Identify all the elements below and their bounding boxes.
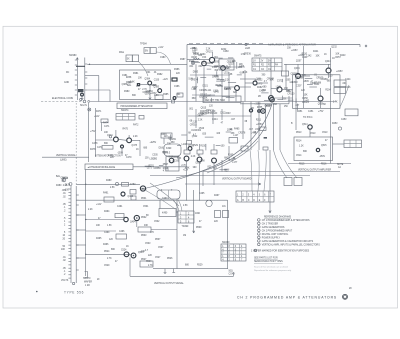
- svg-text:ELECTRICAL CONN: ELECTRICAL CONN: [52, 97, 73, 100]
- svg-text:R357: R357: [335, 57, 341, 59]
- box pair gain: [144, 48, 156, 54]
- svg-text:D597: D597: [163, 164, 169, 166]
- resistor R392: [172, 78, 177, 81]
- wire: [333, 143, 345, 145]
- svg-text:2.2K: 2.2K: [133, 136, 138, 138]
- transistor Q474: [114, 137, 119, 142]
- svg-text:MAG: MAG: [119, 51, 124, 54]
- svg-text:2B: 2B: [258, 96, 261, 98]
- value labels balance: [94, 110, 139, 157]
- transistor Q476: [121, 145, 124, 148]
- svg-text:CH 2 TRIGGER: CH 2 TRIGGER: [262, 223, 279, 225]
- svg-text:C479: C479: [126, 157, 132, 159]
- jack loop J475: [206, 200, 212, 206]
- svg-text:+225V: +225V: [150, 93, 157, 95]
- potentiometer R483: [115, 182, 118, 185]
- switch SW470 volts/div: [61, 186, 88, 285]
- svg-text:C459: C459: [259, 91, 265, 93]
- crossed small b: [258, 110, 261, 113]
- svg-text:GATE GENERATORS: GATE GENERATORS: [262, 226, 285, 229]
- svg-text:C478: C478: [92, 143, 98, 145]
- value labels preamp: [189, 48, 252, 100]
- svg-text:R501: R501: [141, 198, 147, 200]
- reference diagrams block: [251, 215, 320, 271]
- svg-text:1K: 1K: [324, 54, 327, 56]
- resistor squiggle R391: [193, 58, 200, 59]
- svg-text:L121: L121: [206, 90, 212, 92]
- svg-text:R258: R258: [126, 77, 132, 79]
- svg-text:Scans of this schematic are ar: Scans of this schematic are archived: [254, 265, 289, 268]
- svg-text:12K: 12K: [232, 61, 237, 63]
- svg-text:R502: R502: [141, 217, 147, 219]
- value labels input box: [122, 72, 160, 95]
- curve to wafer a: [250, 150, 252, 191]
- svg-text:Q514: Q514: [302, 124, 308, 126]
- svg-text:R503: R503: [141, 235, 147, 237]
- transistor Q394: [202, 61, 207, 66]
- box C492: [263, 147, 268, 150]
- title dash row: [189, 42, 263, 44]
- box mid tap: [116, 234, 127, 239]
- relay K490 labels: [166, 148, 172, 155]
- svg-text:D472: D472: [193, 53, 199, 55]
- svg-text:K490: K490: [162, 213, 168, 215]
- svg-text:C307: C307: [296, 86, 302, 88]
- box pre-bus b: [177, 93, 183, 97]
- svg-text:R516: R516: [321, 164, 327, 166]
- svg-text:R515: R515: [299, 164, 305, 166]
- svg-text:C305: C305: [152, 155, 158, 157]
- arrowhead: [269, 211, 271, 214]
- svg-text:WAFER: WAFER: [84, 281, 92, 284]
- circle pre-bus: [173, 97, 176, 100]
- svg-text:CR559: CR559: [154, 168, 162, 170]
- svg-text:5.6K: 5.6K: [256, 78, 261, 80]
- svg-text:-150V: -150V: [303, 81, 310, 83]
- svg-text:TP384: TP384: [140, 44, 147, 46]
- svg-text:VERTICAL OUTPUT SIGNAL: VERTICAL OUTPUT SIGNAL: [154, 282, 184, 285]
- potentiometer R481: [69, 183, 72, 186]
- wire stubs from switch: [76, 215, 86, 258]
- svg-text:C453: C453: [341, 119, 347, 121]
- pot R524: [131, 253, 136, 258]
- box detail: [122, 183, 129, 187]
- value labels output compartment: [296, 124, 328, 166]
- labels mag: [119, 44, 186, 97]
- connector circle ATT: [270, 97, 275, 102]
- svg-text:+12V: +12V: [158, 47, 164, 49]
- svg-text:2.2K: 2.2K: [191, 156, 196, 158]
- svg-text:SW474: SW474: [121, 110, 129, 112]
- svg-text:R485: R485: [234, 128, 240, 130]
- svg-text:2.7K: 2.7K: [148, 265, 153, 267]
- table input attenuator: [116, 114, 135, 121]
- svg-text:.047: .047: [231, 119, 236, 121]
- svg-text:AMPLIFIER & PERIODIC ATTENUATO: AMPLIFIER & PERIODIC ATTENUATOR: [268, 43, 316, 46]
- curve to connector 1: [273, 150, 287, 178]
- transistor Q514: [308, 125, 312, 129]
- svg-text:D494: D494: [161, 134, 167, 136]
- svg-text:C502: C502: [154, 221, 160, 223]
- svg-text:.001: .001: [189, 66, 194, 68]
- connector box P12: [294, 178, 302, 186]
- svg-text:1M: 1M: [183, 235, 186, 237]
- switch wafer SW490: [236, 191, 274, 202]
- ground stub 2: [172, 269, 175, 273]
- svg-text:CR278: CR278: [238, 132, 246, 134]
- svg-text:22K: 22K: [148, 255, 153, 257]
- curve to connector 2: [280, 150, 297, 178]
- wire: [98, 76, 100, 102]
- labels below switch: [83, 278, 100, 287]
- svg-text:L331: L331: [224, 73, 230, 75]
- label attenuator section: [90, 131, 139, 159]
- svg-text:Q515: Q515: [321, 145, 327, 147]
- svg-text:6.8K: 6.8K: [185, 168, 190, 170]
- svg-text:2.2K: 2.2K: [225, 79, 230, 81]
- svg-text:NOTE: NOTE: [337, 164, 344, 166]
- wire drops preamp: [196, 52, 245, 102]
- dark mark: [264, 137, 267, 139]
- svg-text:R475: R475: [123, 129, 129, 131]
- junction on line: [245, 43, 247, 45]
- svg-text:33K: 33K: [270, 79, 275, 81]
- switch SW380 input coupling: [64, 55, 87, 101]
- svg-text:C372: C372: [277, 80, 283, 82]
- box small left 2: [131, 196, 136, 200]
- curve to relay 2: [145, 190, 175, 209]
- labels pots: [56, 175, 70, 192]
- svg-text:TD490: TD490: [182, 226, 190, 228]
- svg-text:R513: R513: [296, 132, 302, 134]
- svg-text:TO PIN 4: TO PIN 4: [303, 117, 313, 119]
- svg-text:Q207: Q207: [296, 61, 302, 63]
- labels mid: [106, 180, 136, 189]
- svg-text:.001: .001: [189, 108, 194, 110]
- potentiometer R480: [62, 178, 66, 182]
- pot R489: [140, 186, 145, 191]
- svg-text:2.5K: 2.5K: [110, 187, 115, 189]
- svg-text:CH 2 PROGRAMMED INPUT: CH 2 PROGRAMMED INPUT: [262, 229, 293, 232]
- box C444: [334, 80, 346, 86]
- svg-text:C520: C520: [199, 128, 205, 130]
- value labels center: [141, 189, 226, 263]
- svg-text:R494: R494: [104, 211, 110, 213]
- circled diamond: [343, 294, 348, 299]
- svg-text:CR289: CR289: [321, 79, 329, 81]
- svg-text:L470: L470: [257, 84, 263, 86]
- wire stubs preamp: [191, 58, 242, 102]
- tiny note lines: [337, 164, 344, 169]
- svg-text:15K: 15K: [287, 47, 292, 49]
- svg-text:◂ ATTENUATOR BALANCE: ◂ ATTENUATOR BALANCE: [88, 166, 116, 169]
- svg-text:SW470: SW470: [83, 278, 91, 280]
- svg-text:+12V: +12V: [94, 116, 100, 118]
- svg-text:R514: R514: [296, 141, 302, 143]
- svg-text:+12V: +12V: [183, 170, 189, 172]
- svg-text:R386: R386: [174, 69, 180, 71]
- tap wire 184: [76, 183, 140, 185]
- curve relay to table: [178, 200, 182, 212]
- svg-text:1.2K: 1.2K: [299, 146, 304, 148]
- svg-text:1K: 1K: [332, 58, 335, 60]
- svg-text:R478: R478: [90, 149, 96, 151]
- svg-text:VOLTS: VOLTS: [61, 280, 69, 282]
- svg-text:R471: R471: [96, 111, 102, 113]
- svg-text:+75V: +75V: [318, 111, 324, 113]
- svg-text:CR105: CR105: [199, 90, 207, 92]
- wire: [176, 211, 178, 213]
- switch ground circle: [81, 93, 84, 96]
- svg-text:VERTICAL SIGNAL: VERTICAL SIGNAL: [56, 154, 77, 157]
- svg-text:+225V: +225V: [291, 50, 298, 52]
- wires right cluster: [245, 48, 331, 164]
- svg-text:R527: R527: [141, 259, 147, 261]
- svg-text:C483: C483: [223, 51, 229, 53]
- dashed bus segment: [41, 97, 90, 103]
- tap wire 231: [86, 230, 116, 232]
- transistor Q424: [269, 96, 274, 101]
- svg-text:2.2K: 2.2K: [63, 185, 68, 187]
- svg-text:C451: C451: [308, 111, 314, 113]
- ground arrow: [149, 98, 151, 100]
- svg-text:CR120: CR120: [287, 93, 295, 95]
- svg-text:R498: R498: [191, 57, 197, 59]
- svg-text:VERTICAL OUTPUT AMPLIFIER: VERTICAL OUTPUT AMPLIFIER: [298, 168, 331, 171]
- box pre-bus a: [155, 95, 163, 100]
- labels top right band: [287, 47, 342, 63]
- svg-text:R443: R443: [340, 55, 346, 57]
- svg-text:C494: C494: [104, 232, 110, 234]
- svg-text:Q434: Q434: [294, 68, 300, 70]
- svg-text:L127: L127: [233, 135, 239, 137]
- svg-text:R483: R483: [106, 180, 112, 182]
- signal line label: [42, 154, 89, 161]
- resistor box R491: [104, 197, 114, 202]
- svg-text:R441: R441: [313, 51, 319, 53]
- junction: [89, 64, 90, 65]
- box around Q395: [219, 59, 234, 70]
- svg-text:CR374: CR374: [191, 80, 199, 82]
- svg-text:10K: 10K: [138, 78, 143, 80]
- svg-text:2.2K: 2.2K: [88, 209, 93, 211]
- wire riser 177: [176, 199, 178, 269]
- wires preamp horizontals: [187, 59, 256, 95]
- svg-text:GATE GENERATORS & CALIBRATOR C: GATE GENERATORS & CALIBRATOR CIRCUITS: [262, 240, 314, 243]
- sweep curve 3: [207, 141, 258, 173]
- svg-text:-150V: -150V: [225, 113, 232, 115]
- transistor Q503: [169, 158, 174, 163]
- connector circle elec: [88, 108, 91, 111]
- svg-text:5.6K: 5.6K: [169, 157, 174, 159]
- svg-text:VERTICAL OUTPUT BOARD: VERTICAL OUTPUT BOARD: [222, 177, 252, 180]
- svg-text:-150V: -150V: [225, 89, 232, 91]
- labels under bus: [189, 106, 263, 137]
- svg-text:6.8K: 6.8K: [240, 73, 245, 75]
- node dot: [365, 45, 367, 47]
- svg-text:C491: C491: [117, 206, 123, 208]
- svg-text:DIGITAL UNIT CONTROL: DIGITAL UNIT CONTROL: [262, 233, 289, 236]
- svg-text:C503: C503: [145, 243, 151, 245]
- svg-text:2.2K: 2.2K: [206, 49, 211, 51]
- svg-text:+225V: +225V: [150, 142, 157, 144]
- switch wafer SW475: [252, 56, 282, 72]
- wire riser 193: [193, 190, 195, 233]
- curve to relay: [150, 183, 179, 206]
- svg-text:R282: R282: [257, 87, 263, 89]
- arrow output bus: [185, 183, 261, 185]
- svg-text:2.2K: 2.2K: [193, 121, 198, 123]
- svg-text:Q493: Q493: [128, 196, 134, 198]
- svg-text:DC: DC: [66, 72, 70, 74]
- transistor Q502: [188, 147, 192, 151]
- svg-text:R491: R491: [103, 193, 109, 195]
- svg-text:2.7K: 2.7K: [107, 258, 112, 260]
- svg-text:Q115: Q115: [228, 63, 234, 65]
- svg-text:C496: C496: [119, 231, 125, 233]
- svg-text:Q475: Q475: [132, 145, 138, 147]
- box +12V: [101, 119, 108, 123]
- svg-text:+225V: +225V: [336, 71, 343, 73]
- svg-text:R496: R496: [103, 244, 109, 246]
- svg-text:L246: L246: [276, 87, 282, 89]
- svg-text:2V: 2V: [261, 60, 264, 62]
- svg-text:R480: R480: [56, 185, 62, 187]
- svg-text:CR302: CR302: [194, 130, 202, 132]
- svg-text:R529: R529: [197, 265, 203, 267]
- svg-text:C312: C312: [220, 112, 226, 114]
- svg-text:R453: R453: [332, 123, 338, 125]
- svg-text:D295: D295: [214, 61, 220, 63]
- svg-text:Q524: Q524: [138, 252, 144, 254]
- svg-text:+12V: +12V: [163, 79, 169, 81]
- svg-text:C471: C471: [104, 126, 110, 128]
- svg-text:CR562: CR562: [291, 73, 299, 75]
- crossed small a: [249, 109, 252, 112]
- wires balance cluster: [96, 123, 141, 156]
- svg-text:Q232: Q232: [331, 47, 337, 49]
- svg-text:Q494: Q494: [130, 222, 136, 224]
- svg-text:J490: J490: [195, 213, 201, 215]
- grid table relay contacts: [178, 211, 194, 223]
- diode D384: [137, 84, 139, 86]
- svg-text:C527: C527: [155, 257, 161, 259]
- table switch positions: [221, 242, 246, 262]
- svg-text:C383: C383: [160, 57, 166, 59]
- transistor Q414: [277, 87, 282, 92]
- svg-text:C524: C524: [121, 250, 127, 252]
- ground stub: [164, 269, 167, 274]
- +300V line: [188, 113, 251, 116]
- wire coax drop: [227, 200, 229, 269]
- transistor Q384: [148, 81, 152, 85]
- value labels driver: [254, 73, 338, 108]
- signal bus: [90, 101, 336, 103]
- crossed circle input: [191, 61, 194, 64]
- svg-text:D160: D160: [159, 148, 165, 150]
- wire riser left: [85, 170, 87, 277]
- table output connector: [344, 140, 362, 148]
- bus second line: [240, 96, 289, 104]
- svg-text:15K: 15K: [202, 57, 207, 59]
- box above relay: [161, 133, 172, 138]
- svg-text:R507: R507: [155, 239, 161, 241]
- svg-text:1.5K: 1.5K: [107, 225, 112, 227]
- svg-text:-150V: -150V: [117, 153, 124, 155]
- labels connectors: [251, 96, 271, 110]
- svg-text:15K: 15K: [304, 95, 309, 97]
- value labels mid band: [143, 130, 238, 173]
- box output compartment: [294, 137, 333, 161]
- connector circle CRT: [261, 109, 266, 114]
- svg-text:C495: C495: [199, 193, 205, 195]
- svg-text:SW475: SW475: [254, 56, 262, 58]
- box Q503 stage: [166, 157, 179, 172]
- svg-text:R385: R385: [163, 94, 169, 96]
- svg-text:PROGRAMMED ATTENUATOR: PROGRAMMED ATTENUATOR: [121, 105, 153, 108]
- box small driver: [282, 71, 289, 76]
- resistor boxes output row: [184, 150, 217, 154]
- wire: [140, 84, 148, 86]
- wire: [136, 221, 138, 227]
- section border amplifier: [187, 45, 360, 141]
- svg-text:1V: 1V: [253, 60, 256, 62]
- svg-text:SEE PARTS LIST FOR: SEE PARTS LIST FOR: [254, 257, 278, 260]
- wires output row: [164, 138, 229, 201]
- svg-text:C501: C501: [143, 206, 149, 208]
- svg-text:C513: C513: [310, 133, 316, 135]
- svg-text:CR536: CR536: [244, 54, 252, 56]
- vertical output signal line: [130, 275, 234, 277]
- svg-text:R381: R381: [133, 73, 139, 75]
- labels left margin ticks: [61, 178, 71, 187]
- transistor Q506: [212, 158, 217, 163]
- svg-text:Q474: Q474: [107, 135, 113, 137]
- transistor Q524: [124, 252, 129, 257]
- sweep curve 1: [147, 104, 273, 188]
- svg-text:L428: L428: [245, 48, 251, 50]
- svg-text:C507: C507: [158, 247, 164, 249]
- transistor Q493: [121, 192, 125, 196]
- header box programmed attenuator: [117, 103, 167, 109]
- labels right top: [291, 50, 351, 89]
- svg-text:VERTICAL AMPL INPUTS & PARALLE: VERTICAL AMPL INPUTS & PARALLEL CONNECTO…: [262, 243, 320, 246]
- wire: [133, 166, 187, 168]
- svg-text:C474: C474: [97, 147, 103, 149]
- svg-text:.005: .005: [62, 190, 67, 192]
- junction box symbol: [172, 100, 175, 103]
- svg-text:TYPE 556: TYPE 556: [64, 291, 84, 295]
- junction dots riser: [85, 184, 86, 255]
- transistor Q454: [318, 96, 323, 101]
- svg-text:R510: R510: [302, 53, 308, 55]
- wire: [87, 89, 110, 91]
- box input amp compartment: [120, 70, 171, 100]
- wire lower bus: [153, 268, 228, 270]
- wire: [151, 229, 177, 231]
- svg-text:10K: 10K: [316, 56, 321, 58]
- svg-text:R509: R509: [196, 227, 202, 229]
- curve relay to table 2: [173, 200, 179, 212]
- svg-text:+75V: +75V: [90, 131, 96, 133]
- svg-text:CR316: CR316: [190, 125, 198, 127]
- svg-text:R474: R474: [103, 123, 109, 125]
- wire squiggle: [156, 52, 170, 64]
- svg-text:33K: 33K: [144, 225, 149, 227]
- transistor Q515: [316, 148, 319, 151]
- svg-text:CH 2 PROGRAMMED AMP & ATTENUAT: CH 2 PROGRAMMED AMP & ATTENUATORS: [237, 295, 337, 299]
- wire switch to amp: [87, 63, 187, 65]
